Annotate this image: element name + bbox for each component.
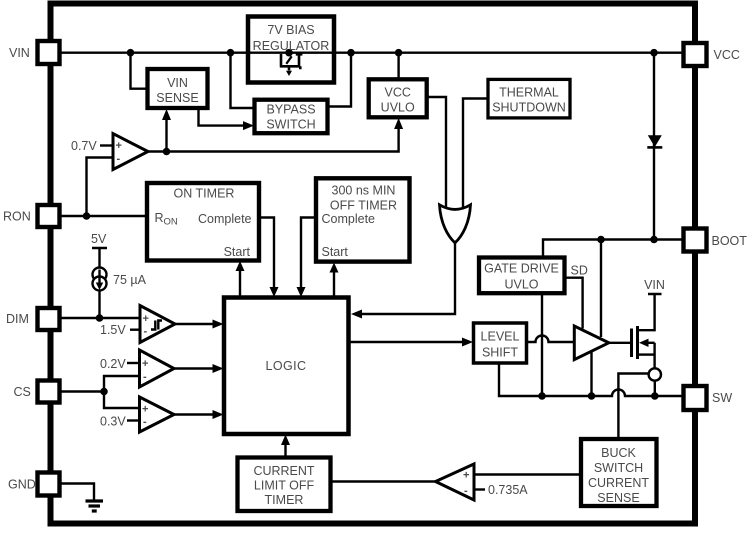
- arrowhead into VCC UVLO: [394, 118, 403, 129]
- wire 1.5V stub to minus input: [130, 329, 140, 331]
- wire BOOT line: [543, 240, 684, 257]
- wire 0.3V stub to minus input: [127, 419, 140, 421]
- svg-text:-: -: [144, 326, 148, 338]
- wire current source to DIM line: [98, 290, 100, 318]
- svg-text:5V: 5V: [91, 232, 107, 246]
- svg-text:R: R: [155, 211, 164, 225]
- svg-text:SWITCH: SWITCH: [594, 461, 643, 475]
- wire VIN rail (VIN pin to VCC pin): [60, 52, 684, 54]
- arrowhead into LOGIC bottom: [281, 435, 290, 446]
- op-amp 0.7V comparator: [113, 134, 148, 170]
- svg-text:CS: CS: [14, 385, 31, 399]
- wire BYPASS SWITCH upper input drop: [231, 53, 255, 108]
- wire branch up into VIN SENSE bottom: [165, 119, 167, 152]
- arrowhead comp2 to LOGIC: [213, 364, 224, 373]
- svg-text:Complete: Complete: [322, 212, 376, 226]
- box ON TIMER: [147, 183, 259, 261]
- svg-text:Start: Start: [224, 245, 251, 259]
- wire CS branch to 0.3V comp plus input: [104, 392, 140, 409]
- node VCC/diode: [650, 49, 658, 57]
- wire ON TIMER Complete down to LOGIC: [259, 218, 274, 290]
- wire RON line to ON TIMER: [60, 215, 148, 217]
- current sense probe circle: [649, 368, 661, 380]
- svg-text:DIM: DIM: [6, 312, 29, 326]
- wire OR gate output to LOGIC right side: [361, 242, 455, 314]
- MOSFET source stub: [639, 353, 655, 355]
- wire 0.2V stub to plus input: [127, 362, 140, 364]
- arrowhead into BYPASS SWITCH: [243, 121, 254, 130]
- svg-text:+: +: [463, 470, 469, 482]
- wire CS line: [60, 390, 105, 392]
- svg-text:1.5V: 1.5V: [100, 323, 126, 337]
- arrowhead OFF TIMER start: [330, 263, 339, 273]
- svg-text:SENSE: SENSE: [156, 91, 198, 105]
- wire CURRENT LIMIT OFF TIMER up to LOGIC: [284, 443, 286, 458]
- svg-text:0.2V: 0.2V: [100, 357, 126, 371]
- svg-text:-: -: [464, 485, 468, 497]
- svg-text:0.3V: 0.3V: [100, 415, 126, 429]
- svg-text:UVLO: UVLO: [504, 278, 538, 292]
- wire 0.7V comparator output to VCC UVLO bottom: [148, 128, 399, 152]
- MOSFET drain stub and riser to VIN: [639, 294, 655, 330]
- MOSFET gate bar: [630, 329, 633, 358]
- arrowhead OFF TIMER complete: [297, 287, 306, 297]
- wire LEVEL SHIFT bottom + SW rail with hop at x=618.4: [499, 363, 684, 396]
- svg-text:SENSE: SENSE: [597, 491, 639, 505]
- box BYPASS SWITCH: [255, 100, 328, 134]
- arrowhead into LEVEL SHIFT: [462, 338, 473, 347]
- svg-text:SWITCH: SWITCH: [266, 118, 315, 132]
- wire bootstrap diode column (VCC rail to BOOT line): [653, 53, 655, 240]
- arrowhead into VIN SENSE: [162, 109, 171, 120]
- svg-text:RON: RON: [3, 210, 31, 224]
- wire VCC UVLO top drop: [397, 53, 399, 80]
- wire THERMAL SHUTDOWN output to OR gate: [463, 99, 488, 213]
- node rail/source: [651, 392, 659, 400]
- wire comp 1.5V output to LOGIC: [175, 323, 213, 325]
- node rail/gd-uvlo: [538, 392, 546, 400]
- box THERMAL SHUTDOWN: [488, 79, 570, 118]
- wire LOGIC up to ON TIMER Start: [239, 269, 241, 298]
- wire comparator output to CURRENT LIMIT OFF TIMER: [331, 480, 436, 482]
- bootstrap diode: [648, 135, 662, 147]
- pin GND: [38, 473, 60, 496]
- svg-text:ON TIMER: ON TIMER: [174, 187, 235, 201]
- svg-text:BYPASS: BYPASS: [266, 103, 315, 117]
- svg-text:VCC: VCC: [714, 48, 740, 62]
- wire CS branch to 0.2V comp minus input: [104, 376, 140, 392]
- pin VIN: [38, 41, 60, 64]
- svg-text:0.7V: 0.7V: [71, 139, 97, 153]
- wire sense tap to BUCK SWITCH CURRENT SENSE: [618, 374, 648, 440]
- wire GND pin to ground symbol: [61, 484, 94, 501]
- wire 0.735A stub to minus input: [474, 488, 485, 490]
- wire comp 0.2V output to LOGIC: [174, 367, 213, 369]
- svg-text:-: -: [143, 416, 147, 428]
- svg-text:SW: SW: [712, 391, 732, 405]
- VIN supply bar: [648, 293, 662, 296]
- svg-text:THERMAL: THERMAL: [499, 86, 559, 100]
- op-amp 0.2V comparator: [140, 350, 175, 387]
- wire LOGIC output to LEVEL SHIFT: [349, 341, 463, 343]
- op-amp 0.3V comparator: [140, 397, 175, 432]
- svg-text:BUCK: BUCK: [601, 446, 636, 460]
- zener arrow: [286, 71, 292, 76]
- MOSFET body arrowhead: [639, 339, 649, 347]
- wire BOOT to driver top: [600, 240, 602, 338]
- svg-text:UVLO: UVLO: [381, 101, 415, 115]
- MOSFET channel bar: [636, 326, 639, 359]
- current source 75uA circles: [93, 268, 107, 282]
- wire VCC UVLO output to OR gate: [427, 97, 446, 212]
- 5V supply bar: [92, 247, 107, 250]
- svg-text:BOOT: BOOT: [712, 234, 748, 248]
- wire 5V to current source: [98, 248, 100, 268]
- svg-text:GATE DRIVE: GATE DRIVE: [484, 262, 559, 276]
- pin DIM: [38, 308, 60, 330]
- svg-text:VIN: VIN: [9, 46, 30, 60]
- wire SD from GATE DRIVE UVLO to driver: [565, 278, 583, 329]
- node RON branch: [83, 212, 91, 220]
- arrowhead ON TIMER start: [236, 261, 245, 271]
- wire VIN SENSE left input drop: [131, 53, 148, 89]
- svg-text:VIN: VIN: [167, 76, 188, 90]
- box GATE DRIVE UVLO: [479, 258, 565, 294]
- wire driver output to MOSFET gate: [609, 342, 630, 344]
- node BOOT/diode: [650, 236, 658, 244]
- wire GATE DRIVE UVLO bottom to SW rail: [541, 293, 543, 396]
- box VIN SENSE: [148, 69, 208, 108]
- svg-text:-: -: [143, 371, 147, 383]
- arrowhead ON TIMER complete: [270, 287, 279, 297]
- svg-text:VCC: VCC: [384, 86, 410, 100]
- wire LEVEL SHIFT to driver input (hop over x=542): [527, 336, 575, 343]
- svg-text:+: +: [142, 404, 148, 416]
- svg-text:0.735A: 0.735A: [488, 483, 528, 497]
- box 300ns MIN OFF TIMER: [316, 178, 410, 261]
- wire circle to SW rail: [654, 381, 656, 396]
- ground symbol: [86, 501, 104, 511]
- box LOGIC: [224, 298, 349, 435]
- node zener tap: [285, 49, 293, 57]
- zener symbol inside 7V bias regulator: [280, 54, 303, 71]
- node rail/driver: [588, 392, 596, 400]
- pin VCC: [684, 43, 707, 66]
- wire RON branch up to 0.7V comparator minus input: [87, 158, 114, 217]
- arrowhead into LOGIC right: [351, 310, 362, 319]
- node bypass riser: [347, 49, 355, 57]
- arrowhead comp3 to LOGIC: [213, 410, 224, 419]
- svg-text:CURRENT: CURRENT: [588, 476, 649, 490]
- svg-text:75 µA: 75 µA: [113, 273, 147, 287]
- svg-text:Start: Start: [322, 245, 349, 259]
- OR gate: [440, 205, 471, 243]
- svg-text:VIN: VIN: [644, 278, 665, 292]
- box LEVEL SHIFT: [474, 323, 527, 363]
- svg-text:REGULATOR: REGULATOR: [253, 39, 330, 53]
- svg-text:300 ns MIN: 300 ns MIN: [332, 184, 396, 198]
- node 0.7V output branch: [163, 148, 171, 156]
- wire BUCK sense output to 0.735A comparator plus input: [474, 473, 581, 475]
- svg-text:-: -: [117, 153, 121, 165]
- node DIM/current source: [96, 314, 104, 322]
- comparator +/- marks: [116, 140, 470, 497]
- wire DIM line to 1.5V comparator: [60, 317, 141, 319]
- svg-text:CURRENT: CURRENT: [253, 464, 314, 478]
- wire BYPASS SWITCH right riser to VIN rail: [328, 53, 352, 107]
- wire VIN SENSE output to BYPASS SWITCH: [199, 108, 244, 125]
- box BUCK SWITCH CURRENT SENSE: [581, 439, 657, 506]
- svg-text:SD: SD: [571, 264, 588, 278]
- box 7V BIAS REGULATOR: [248, 17, 334, 83]
- pin BOOT: [684, 229, 707, 252]
- op-amp 1.5V comparator: [140, 306, 175, 343]
- svg-text:LOGIC: LOGIC: [266, 359, 307, 373]
- svg-text:GND: GND: [8, 478, 36, 492]
- pin CS: [38, 381, 60, 403]
- wire OFF TIMER Complete down to LOGIC: [301, 218, 316, 290]
- svg-text:+: +: [116, 140, 122, 152]
- wire comp 0.3V output to LOGIC: [174, 413, 213, 415]
- svg-text:SHUTDOWN: SHUTDOWN: [492, 101, 566, 115]
- node VIN/BYPASS: [227, 49, 235, 57]
- box CURRENT LIMIT OFF TIMER: [238, 458, 331, 512]
- svg-text:LEVEL: LEVEL: [481, 330, 520, 344]
- node CS branch: [100, 388, 108, 396]
- wire driver bottom to SW rail: [590, 351, 592, 396]
- svg-text:ON: ON: [164, 217, 178, 228]
- svg-text:SHIFT: SHIFT: [482, 346, 518, 360]
- op-amp 0.735A comparator (points left): [436, 464, 475, 500]
- hysteresis glyph in 1.5V comparator: [151, 321, 162, 330]
- svg-text:LIMIT OFF: LIMIT OFF: [254, 479, 315, 493]
- node VIN/VIN-SENSE: [127, 49, 135, 57]
- svg-text:OFF TIMER: OFF TIMER: [330, 199, 397, 213]
- node BOOT/driver: [597, 236, 605, 244]
- wire 0.7V stub to plus input: [100, 144, 113, 146]
- pin RON: [38, 205, 60, 227]
- node VCC UVLO tap: [395, 49, 403, 57]
- svg-text:+: +: [143, 313, 149, 325]
- box VCC UVLO: [369, 79, 427, 117]
- current source arrow: [98, 270, 100, 284]
- svg-text:7V BIAS: 7V BIAS: [267, 23, 314, 37]
- arrowhead comp1 to LOGIC: [213, 320, 224, 329]
- MOSFET body arrow line: [646, 342, 655, 344]
- wire source down to sense circle: [653, 343, 655, 369]
- svg-text:Complete: Complete: [198, 212, 252, 226]
- wire LOGIC up to OFF TIMER Start: [333, 271, 335, 298]
- gate driver buffer triangle: [574, 326, 609, 360]
- svg-text:+: +: [142, 358, 148, 370]
- svg-text:TIMER: TIMER: [265, 493, 304, 507]
- pin SW: [684, 386, 707, 410]
